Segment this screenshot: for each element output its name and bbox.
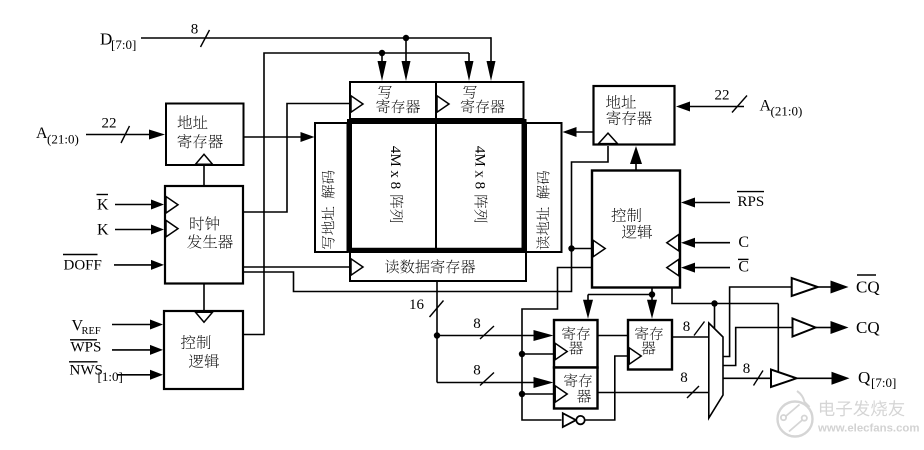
wire 8-bit to register U8 (437, 382, 542, 384)
bus width 8 mux to Q (743, 361, 763, 386)
label A(21:0) right (760, 98, 803, 119)
label C-bar (738, 259, 749, 276)
wire 16-bit bus from read data register (436, 282, 438, 383)
wire inverter to reg C clock (586, 356, 628, 420)
CQ-bar output buffer (792, 278, 818, 296)
svg-text:K: K (97, 222, 109, 239)
wire WPS input (112, 349, 151, 351)
label DOFF (63, 255, 102, 274)
wire C-bar input (694, 267, 730, 269)
arrow DOFF into clock generator (151, 260, 164, 270)
svg-text:8: 8 (191, 22, 199, 38)
wire CQ-bar output (819, 286, 832, 288)
svg-text:8: 8 (683, 319, 691, 335)
arrow D into write register U2 (402, 61, 411, 81)
junction dot reg A clock (519, 351, 553, 357)
bus width 8 register U8 to mux (680, 370, 699, 398)
control logic U4 label (181, 335, 219, 368)
wire control logic U5 to address register U6 (635, 160, 637, 171)
label C (738, 234, 749, 251)
svg-text:CQ: CQ (856, 278, 880, 297)
svg-text:CQ: CQ (856, 318, 880, 337)
arrow A into address register U1 (149, 130, 165, 140)
junction dot mux select (711, 300, 717, 306)
arrow Q out (832, 372, 850, 385)
svg-text:(21:0): (21:0) (771, 104, 803, 119)
wire clock gen to right side clocks (243, 146, 608, 292)
clock inverter (563, 413, 585, 427)
label NWS[1:0] (69, 362, 123, 384)
write address decoder label (321, 170, 334, 248)
read data register label (385, 259, 475, 273)
arrow K into clock generator (151, 225, 164, 235)
svg-text:www.elecfans.com: www.elecfans.com (817, 423, 920, 435)
address register U1 label (178, 115, 223, 148)
watermark url (817, 423, 920, 435)
svg-text:C: C (738, 259, 749, 276)
wire DOFF input (114, 264, 152, 266)
arrow RPS into U5 (681, 198, 695, 208)
bus width 16 (409, 297, 444, 317)
wire U5 output enable / mux select (672, 288, 778, 372)
arrow C into U5 (681, 238, 695, 248)
label K-bar (97, 195, 110, 214)
arrow up into U6 (630, 146, 642, 164)
wire mux to Q buffer (724, 377, 771, 379)
junction dot U5 bottom (649, 291, 655, 297)
address register U1 box (166, 104, 244, 166)
arrow into write register U3 pin2 (465, 61, 474, 81)
wire register U9 to mux (673, 336, 708, 338)
arrow K-bar into clock generator (151, 200, 164, 210)
wire mux to CQ buffer (724, 328, 793, 366)
bus width 8 upper read path (473, 316, 494, 339)
watermark text (820, 400, 905, 416)
svg-text:[7:0]: [7:0] (871, 375, 896, 390)
wire U5 clock out to output registers (522, 268, 592, 421)
wire D bus horizontal (141, 37, 491, 62)
arrow CQ out (831, 321, 849, 334)
address register U6 label (606, 95, 652, 125)
arrow down into register U7 (583, 300, 593, 319)
CQ output buffer (793, 319, 816, 337)
svg-text:REF: REF (82, 326, 101, 337)
arrow into write register U2 pin2 (378, 61, 387, 81)
svg-text:Q: Q (858, 368, 870, 387)
register U7 label (562, 326, 590, 354)
wire branch to control logic U5 clock (572, 248, 593, 250)
control logic U4 box (164, 311, 243, 389)
wire Q output (797, 377, 832, 379)
arrow CQ-bar out (831, 281, 849, 294)
wire U5 bottom clock out (588, 288, 652, 300)
read data register box (350, 252, 526, 281)
write register U3 box (436, 82, 524, 119)
wire register U8 to mux (598, 392, 708, 394)
bus width 22 right (715, 88, 748, 113)
output register U8 box (554, 368, 598, 409)
write register U2 box (350, 82, 436, 119)
arrow NWS into U4 (150, 370, 163, 380)
arrow into write address decoder (301, 132, 315, 142)
bus width 22 left (102, 116, 130, 144)
svg-text:[1:0]: [1:0] (98, 369, 123, 384)
wire register U7 to register U9 (598, 335, 627, 337)
read address decoder box (526, 123, 562, 252)
junction dot right clock (568, 245, 574, 251)
bus width 8 on D bus (191, 22, 210, 48)
svg-text:4M x 8: 4M x 8 (472, 146, 488, 189)
control logic U5 label (611, 208, 652, 239)
wire clock gen to control logic U4 (203, 284, 205, 311)
wire mux to CQ-bar buffer (724, 287, 792, 357)
label CQ (856, 318, 880, 337)
junction dot on D bus (403, 35, 409, 63)
svg-text:(21:0): (21:0) (47, 132, 79, 147)
wire 8-bit to register U7 (437, 335, 542, 337)
output register U9 box (628, 320, 672, 370)
clock generator U0 box (165, 186, 243, 284)
watermark logo circle (778, 391, 813, 437)
label WPS (70, 340, 101, 356)
write register U2 label (376, 86, 420, 114)
output mux (709, 323, 723, 418)
wire RPS input (694, 202, 730, 204)
memory array box (350, 122, 525, 251)
svg-text:8: 8 (473, 363, 481, 379)
label CQ-bar (856, 275, 880, 297)
array right label 4M x 8 (472, 146, 488, 223)
svg-text:8: 8 (473, 316, 481, 332)
svg-text:K: K (97, 197, 109, 214)
arrow into read address decoder (563, 127, 577, 137)
register U9 label (635, 326, 663, 354)
svg-text:16: 16 (409, 297, 425, 313)
svg-text:8: 8 (680, 370, 688, 386)
junction dot 16-bit split (434, 332, 440, 338)
write address decoder box (315, 123, 348, 252)
wire A(21:0) right input (689, 106, 744, 108)
label A(21:0) left (36, 125, 79, 147)
svg-text:4M x 8: 4M x 8 (387, 146, 403, 189)
label VREF (72, 317, 101, 337)
bus width 8 register U9 to mux (683, 319, 705, 336)
label D[7:0] (100, 30, 136, 52)
clock generator label (187, 216, 233, 248)
write register U3 label (461, 86, 505, 114)
arrow A into address register U6 (676, 102, 690, 112)
svg-text:8: 8 (743, 361, 751, 377)
svg-text:22: 22 (715, 88, 730, 104)
array left label 4M x 8 (387, 146, 403, 223)
wire VREF input (112, 324, 151, 326)
wire C input (694, 242, 730, 244)
arrow into register U7 (534, 330, 554, 341)
junction dot byte-write (379, 50, 385, 56)
wire clock gen to write register clock (243, 104, 349, 213)
control logic U5 box (592, 171, 680, 288)
label K (97, 222, 109, 239)
wire clock gen to read data register clock (243, 266, 349, 268)
wire CQ output (816, 327, 831, 329)
svg-text:C: C (738, 234, 749, 251)
arrow VREF into control logic U4 (150, 320, 163, 330)
wire K input (115, 229, 152, 231)
arrow D into write register U3 (487, 61, 496, 81)
svg-text:22: 22 (102, 116, 117, 132)
arrow into register U8 (534, 377, 554, 388)
address register U6 box (594, 86, 675, 145)
arrow WPS into U4 (150, 345, 163, 355)
wire address register U6 to read decoder (576, 131, 594, 133)
wire A(21:0) left input (86, 134, 153, 136)
register U8 label (564, 373, 592, 402)
label Q[7:0] (858, 368, 896, 390)
svg-text:RPS: RPS (738, 194, 765, 210)
svg-text:DOFF: DOFF (64, 258, 102, 274)
wire NWS input (117, 374, 151, 376)
Q output buffer (771, 370, 797, 388)
wire control to write registers (byte write) (243, 53, 469, 335)
arrow down into register U9 (647, 300, 657, 319)
arrow C-bar into U5 (681, 263, 695, 273)
svg-text:WPS: WPS (71, 340, 102, 356)
svg-text:[7:0]: [7:0] (111, 37, 136, 52)
label RPS (737, 192, 764, 210)
wire K-bar input (115, 204, 152, 206)
read address decoder label (536, 171, 549, 250)
bus width 8 lower read path (473, 363, 494, 386)
wire address register U1 to write decoder (243, 136, 303, 138)
junction dot reg B clock (519, 391, 553, 397)
wire U1 clock stub (203, 166, 205, 186)
output register U7 box (554, 320, 598, 368)
